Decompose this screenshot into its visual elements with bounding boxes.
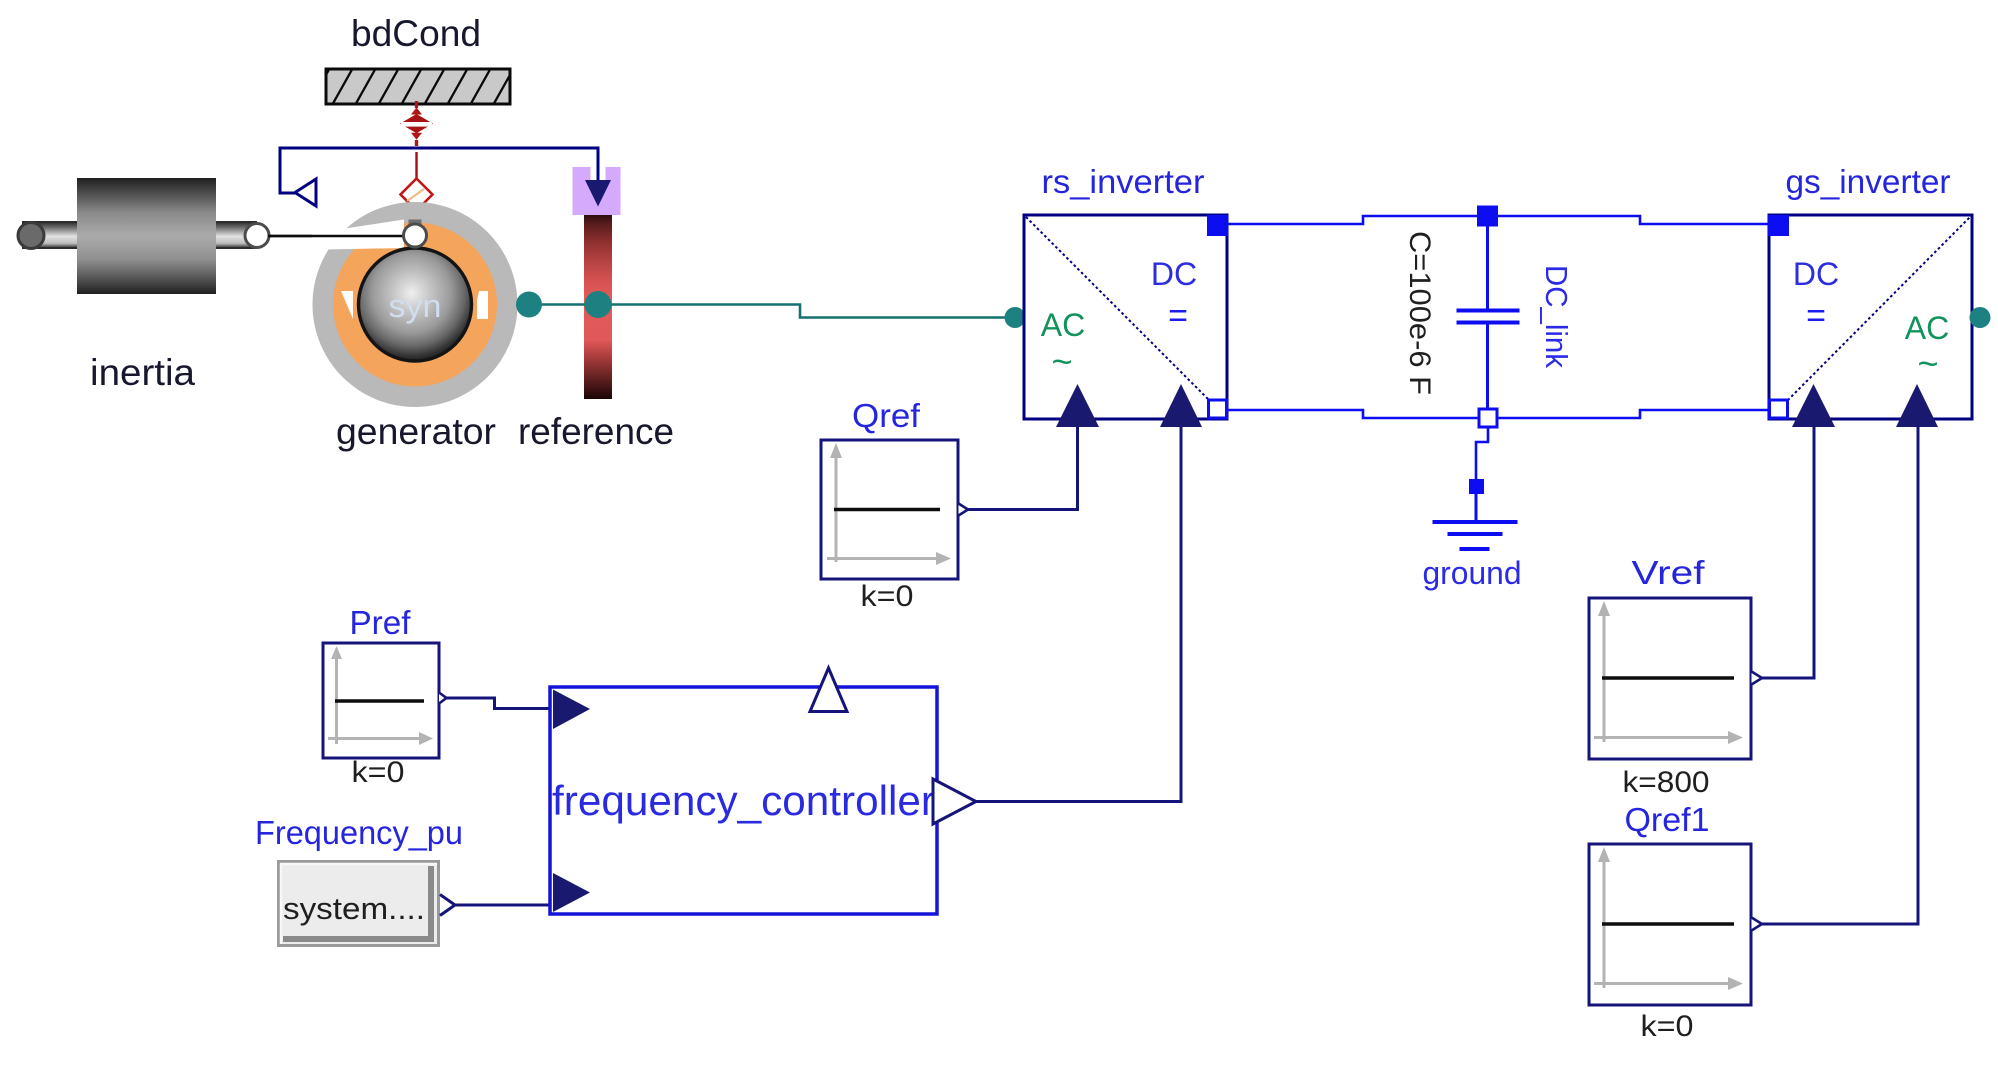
wire: Pref.y to frequency_controller input 1 [447,698,554,709]
svg-text:k=800: k=800 [1623,766,1710,799]
svg-text:Qref1: Qref1 [1625,801,1710,838]
pin frequency_controller input 2 (filled navy triangle) [553,873,590,912]
generator (synchronous machine) [268,202,518,407]
wire: Frequency_pu to frequency_controller input 2 [455,904,553,907]
svg-text:=: = [1168,297,1188,335]
capacitor DC_link C=100e-6 F [1457,226,1520,409]
inertia component [18,178,256,294]
source block Pref (constant) [323,643,439,758]
svg-text:~: ~ [1051,341,1072,382]
op unit gs_inverter (DC/AC converter box) [1769,215,1972,419]
pin frequency_controller input 1 (filled navy triangle) [553,690,590,730]
wire shaft: inertia to generator (black) [268,235,404,238]
svg-text:C=100e-6 F: C=100e-6 F [1403,231,1436,395]
thermal connection wire (red) [415,152,417,180]
thermal boundary bdCond (hatched wall) [308,66,515,107]
wire: DC_link to ground (blue) [1476,427,1488,480]
svg-text:Qref: Qref [852,397,921,434]
node: gs_inverter AC terminal (teal dot) [1970,307,1991,328]
svg-text:~: ~ [1917,343,1938,384]
pin rs_inverter DC- (open square) [1209,400,1227,418]
svg-text:rs_inverter: rs_inverter [1042,163,1205,200]
pin gs_inverter DC- (open square) [1770,400,1788,418]
node: rs_inverter AC terminal (teal dot) [1005,307,1026,328]
pin frequency_controller top (open triangle) [810,668,847,712]
wire: frequency_controller output to rs_inverter control 2 [976,427,1181,802]
source block Frequency_pu (system expression, raised grey) [279,862,439,946]
wire support: generator support to reference input (navy) [280,148,598,193]
wire: Qref.y to rs_inverter control 1 [968,427,1078,510]
svg-text:Pref: Pref [350,604,412,641]
support flange connector (open triangle) [295,179,316,206]
svg-text:syn: syn [389,288,442,324]
node DC_link negative pin (open square) [1479,409,1497,427]
wire AC: generator to rs_inverter (teal) [529,305,1016,318]
pin Qref1 output y (open triangle) [1752,918,1763,931]
svg-text:DC: DC [1151,256,1197,292]
source block Qref1 (constant) [1589,844,1751,1005]
controller block frequency_controller [550,687,937,914]
heatport of bdCond (red striped diamond symbol) [400,101,433,146]
node DC_link positive pin (filled blue square) [1477,206,1498,227]
svg-text:generator: generator [336,411,496,452]
svg-text:=: = [1806,297,1826,335]
pin rs_inverter DC+ (filled blue square) [1207,215,1228,236]
pin Vref output y (open triangle) [1752,672,1763,685]
node: generator AC terminal (teal dot) [516,292,542,318]
svg-text:DC: DC [1793,256,1839,292]
svg-text:system....: system.... [283,891,425,926]
pin gs_inverter control 1 (filled navy triangle) [1792,384,1835,427]
ground [1433,494,1518,551]
reference component: red gradient bar [584,215,612,399]
source block Qref (constant) [821,440,958,579]
svg-text:bdCond: bdCond [351,13,481,54]
wire DC- : rs_inverter to DC_link to gs_inverter (blue) [1227,410,1769,418]
op unit rs_inverter (AC/DC converter box) [1024,215,1227,419]
pin rs_inverter control 2 (filled navy triangle) [1160,384,1202,427]
node: reference terminal on bar (teal dot) [585,291,612,318]
heatport of generator (open red diamond) [401,179,433,211]
pin Pref output y (open triangle) [439,693,447,704]
pin frequency_controller output (open triangle) [933,779,976,824]
wire: Qref1.y to gs_inverter control 2 [1762,427,1918,924]
pin rs_inverter control 1 (filled navy triangle) [1056,384,1099,427]
svg-text:DC_link: DC_link [1539,265,1574,368]
svg-text:Vref: Vref [1632,554,1706,591]
pin gs_inverter control 2 (filled navy triangle) [1896,384,1938,427]
svg-text:k=0: k=0 [861,580,914,613]
svg-text:inertia: inertia [90,352,195,393]
pin gs_inverter DC+ (filled blue square) [1768,215,1789,236]
wire DC+ : rs_inverter to DC_link to gs_inverter (blue) [1227,216,1769,224]
flange of inertia (white circle) [245,224,269,248]
svg-text:frequency_controller: frequency_controller [552,777,935,824]
pin Qref output y (open triangle) [959,504,969,516]
svg-text:reference: reference [518,411,674,452]
wire: Vref.y to gs_inverter control 1 [1762,427,1814,678]
svg-text:k=0: k=0 [1641,1010,1694,1043]
reference component: input connector housing (purple) [573,148,621,215]
svg-text:Frequency_pu: Frequency_pu [255,814,463,851]
svg-text:gs_inverter: gs_inverter [1786,163,1951,200]
svg-text:AC: AC [1041,307,1085,343]
pin Frequency_pu output (open triangle) [440,895,455,916]
svg-text:k=0: k=0 [352,756,405,789]
svg-text:AC: AC [1905,310,1949,346]
source block Vref (constant) [1589,598,1751,759]
flange of generator (white circle) [404,224,427,247]
svg-text:ground: ground [1423,555,1522,591]
node: ground pin (small filled blue square) [1469,479,1484,494]
